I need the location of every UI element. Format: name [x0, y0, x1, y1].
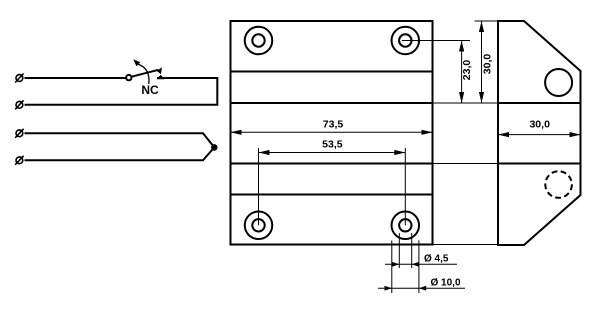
svg-text:53,5: 53,5	[322, 139, 343, 151]
svg-text:Ø 4,5: Ø 4,5	[424, 253, 449, 264]
svg-text:30,0: 30,0	[482, 54, 494, 75]
svg-text:73,5: 73,5	[323, 118, 344, 130]
svg-text:30,0: 30,0	[529, 118, 550, 130]
svg-text:NC: NC	[141, 83, 159, 97]
svg-text:23,0: 23,0	[461, 60, 473, 81]
svg-text:Ø 10,0: Ø 10,0	[431, 277, 461, 288]
